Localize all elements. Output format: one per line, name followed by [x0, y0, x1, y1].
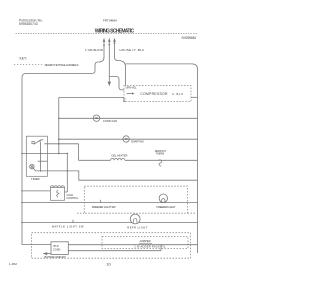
svg-text:1 W ADDER RACK FIL: 1 W ADDER RACK FIL	[134, 245, 166, 249]
svg-text:U BLK: U BLK	[172, 92, 183, 96]
svg-text:5995380743: 5995380743	[19, 22, 38, 26]
svg-text:BUTTER COND SW: BUTTER COND SW	[45, 255, 67, 259]
svg-text:FREEZER LIGHT: FREEZER LIGHT	[157, 205, 176, 209]
svg-text:10: 10	[106, 261, 111, 266]
svg-text:JUMPER: JUMPER	[140, 239, 151, 243]
svg-text:1 OR-BLK/W: 1 OR-BLK/W	[85, 48, 103, 52]
svg-text:DEL HEATER: DEL HEATER	[112, 153, 128, 157]
svg-text:TIMER: TIMER	[31, 177, 40, 181]
svg-text:BAFFLE LIGHT SW: BAFFLE LIGHT SW	[52, 225, 84, 229]
svg-text:KEY:: KEY:	[20, 57, 28, 61]
svg-text:COND: COND	[53, 248, 61, 251]
svg-text:HOUSE LT. BLU: HOUSE LT. BLU	[120, 48, 145, 52]
svg-text:EVAP FAN: EVAP FAN	[131, 140, 143, 144]
svg-text:1-452: 1-452	[9, 262, 17, 266]
svg-text:COND FAN: COND FAN	[103, 119, 117, 123]
svg-text:SH298681: SH298681	[182, 36, 197, 40]
svg-text:COMPRESSOR: COMPRESSOR	[140, 92, 168, 96]
svg-text:THERM: THERM	[156, 153, 165, 156]
svg-text:FREEZER LIGHT SW: FREEZER LIGHT SW	[92, 205, 116, 209]
svg-text:SIGNIFY NOT IN ALL MODELS: SIGNIFY NOT IN ALL MODELS	[45, 63, 79, 67]
svg-text:BTR: BTR	[54, 245, 59, 248]
svg-text:CONTROL: CONTROL	[67, 197, 79, 200]
svg-text:WIRING SCHEMATIC: WIRING SCHEMATIC	[95, 28, 135, 34]
svg-text:GRN-YEL: GRN-YEL	[126, 85, 138, 89]
svg-text:REFR LIGHT: REFR LIGHT	[127, 225, 147, 229]
svg-text:FRT14B4A: FRT14B4A	[103, 18, 117, 22]
